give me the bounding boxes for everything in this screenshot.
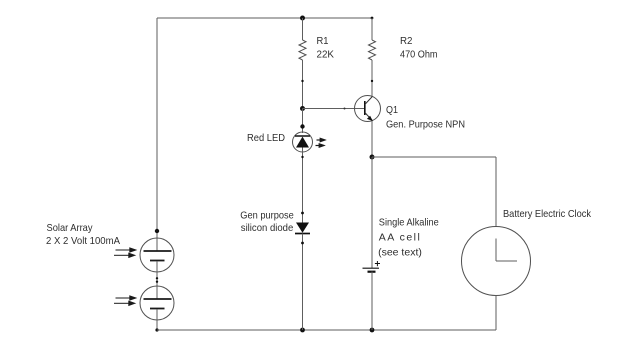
battery BT1: [363, 261, 381, 272]
node wire-end dot below LED: [301, 156, 303, 158]
node wire-end dot below diode: [301, 242, 304, 245]
wire PV2 bottom to bottom bus: [156, 320, 158, 330]
wire R1 bottom lead: [302, 60, 304, 109]
node junction dot base-LED: [300, 106, 305, 111]
node junction dot diode branch bottom: [300, 328, 305, 333]
transistor Q1: [355, 96, 381, 122]
node junction dot emitter-battery-clock: [370, 155, 375, 160]
wire bottom bus: [157, 329, 496, 331]
node dot above LED: [300, 124, 304, 128]
wire clock bottom to bus: [495, 296, 497, 331]
svg-text:R2: R2: [400, 35, 413, 47]
svg-text:silicon diode: silicon diode: [241, 222, 294, 234]
wire down to battery positive plate: [371, 157, 373, 268]
wire LED to diode: [302, 152, 304, 223]
node bottom-left corner dot: [155, 328, 158, 331]
node wire-end dots between cells: [156, 277, 158, 279]
wire R2 bottom lead to Q1 collector: [371, 60, 373, 97]
svg-text:22K: 22K: [317, 49, 335, 61]
wire R2 top lead: [371, 18, 373, 40]
LED light arrows: [316, 138, 326, 147]
svg-text:Q1: Q1: [386, 104, 398, 116]
node tick on base wire: [344, 108, 346, 110]
svg-text:Gen. Purpose NPN: Gen. Purpose NPN: [386, 119, 465, 131]
wire base wire to Q1: [303, 108, 365, 110]
svg-text:2 X 2 Volt 100mA: 2 X 2 Volt 100mA: [46, 235, 120, 247]
node wire-end dot on R1 lead: [301, 80, 303, 82]
wire between solar cells: [156, 272, 158, 287]
node second wire-end dot between cells: [156, 281, 158, 283]
svg-text:Red LED: Red LED: [247, 132, 285, 144]
node wire-end dot on R2 lead: [371, 80, 373, 82]
LED D1 Red LED: [293, 132, 313, 152]
resistor R1: [299, 40, 306, 60]
light arrows into PV1: [114, 248, 136, 258]
wire R1 top lead: [302, 18, 304, 40]
svg-text:Gen purpose: Gen purpose: [240, 210, 294, 222]
solar cell PV2: [140, 286, 174, 320]
node junction dot battery branch bottom: [370, 328, 375, 333]
diode D2: [295, 223, 310, 234]
svg-text:Solar Array: Solar Array: [47, 222, 94, 234]
wire right rail down to clock: [495, 157, 497, 227]
node corner dot top of R2 branch: [371, 17, 374, 20]
wire left rail: [156, 18, 158, 239]
wire Q1 emitter down to junction: [371, 121, 373, 157]
solar cell PV1: [140, 238, 174, 272]
svg-text:Battery Electric Clock: Battery Electric Clock: [503, 208, 592, 220]
light arrows into PV2: [114, 296, 136, 306]
node wire-end dot above diode: [301, 212, 304, 215]
svg-text:470 Ohm: 470 Ohm: [400, 49, 438, 61]
wire diode to bottom bus: [302, 234, 304, 331]
resistor R2: [369, 40, 376, 60]
svg-text:R1: R1: [317, 35, 329, 47]
svg-text:AA cell: AA cell: [379, 232, 420, 244]
svg-text:Single Alkaline: Single Alkaline: [379, 217, 439, 229]
wire battery to bottom bus: [371, 272, 373, 330]
wire junction to LED top: [302, 109, 304, 134]
clock M1: [462, 227, 531, 296]
node dot on left rail above solar cell: [155, 229, 159, 233]
wire junction to clock branch: [372, 156, 496, 158]
svg-text:(see text): (see text): [378, 247, 422, 259]
wire top bus: [157, 17, 372, 19]
node junction dot top of R1 branch: [300, 16, 305, 21]
